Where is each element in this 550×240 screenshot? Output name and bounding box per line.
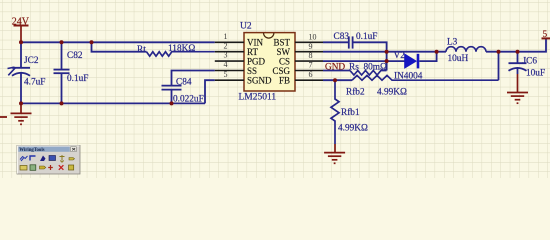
wire pin6 FB row	[323, 79, 352, 81]
svg-text:10uH: 10uH	[448, 54, 469, 64]
svg-text:JC6: JC6	[523, 57, 538, 67]
svg-text:L3: L3	[447, 37, 458, 47]
ground Rfb1	[324, 144, 345, 163]
svg-text:6: 6	[309, 70, 313, 79]
svg-text:4.99KΩ: 4.99KΩ	[377, 87, 407, 97]
wire pin10 to C83	[323, 41, 349, 43]
wire Rt branch	[92, 42, 147, 51]
notch	[264, 33, 274, 38]
svg-text:U2: U2	[240, 22, 252, 32]
wire ground rail	[21, 102, 205, 104]
icons row 2	[20, 166, 27, 171]
svg-text:0.1uF: 0.1uF	[67, 74, 88, 84]
pin numbers	[224, 32, 228, 79]
svg-text:CSG: CSG	[272, 66, 290, 76]
svg-text:10uF: 10uF	[526, 68, 545, 78]
wire pin8	[323, 60, 387, 62]
resistor Rt	[147, 52, 215, 57]
wire C83 to SW node	[353, 42, 387, 51]
capacitor JC6	[509, 52, 527, 74]
svg-text:JC2: JC2	[24, 56, 39, 66]
svg-text:V2: V2	[394, 51, 406, 61]
capacitor C83	[349, 36, 353, 48]
svg-text:4.7uF: 4.7uF	[24, 78, 45, 88]
svg-text:7: 7	[309, 61, 313, 70]
svg-text:SS: SS	[247, 66, 257, 76]
wire pin9 SW	[323, 51, 446, 53]
ground	[11, 103, 32, 124]
svg-text:9: 9	[309, 42, 313, 51]
icons row 1	[20, 156, 28, 160]
svg-text:5: 5	[224, 70, 228, 79]
resistor Rfb1	[331, 80, 339, 144]
svg-text:Rt: Rt	[137, 45, 146, 55]
svg-text:WiringTools: WiringTools	[19, 148, 44, 153]
svg-text:C84: C84	[176, 78, 192, 88]
wire fragment left edge lower	[0, 116, 7, 118]
svg-text:Rs: Rs	[349, 63, 359, 73]
svg-text:0.022uF: 0.022uF	[173, 95, 204, 105]
svg-text:24V: 24V	[12, 17, 30, 28]
ground JC6	[507, 74, 528, 103]
svg-text:4: 4	[224, 60, 228, 69]
wire pin4 to C84	[172, 71, 215, 86]
capacitor C84	[162, 86, 182, 104]
pin 1	[215, 41, 244, 43]
svg-text:2: 2	[224, 41, 228, 50]
resistor Rs	[350, 71, 387, 76]
resistor Rfb2	[352, 75, 499, 80]
pin 6	[295, 79, 323, 81]
pin 9	[295, 51, 323, 53]
pin 4	[215, 70, 244, 72]
svg-text:10: 10	[309, 32, 317, 41]
pin 7	[295, 70, 323, 72]
svg-text:80mΩ: 80mΩ	[364, 63, 388, 73]
pin 3	[215, 60, 244, 62]
svg-text:8: 8	[309, 51, 313, 60]
svg-text:4.99KΩ: 4.99KΩ	[338, 123, 368, 133]
junction dots	[19, 40, 520, 105]
op-amp U1 chip body	[244, 33, 295, 91]
svg-text:C82: C82	[67, 51, 83, 61]
svg-text:LM25011: LM25011	[239, 93, 277, 103]
pin 8	[295, 60, 323, 62]
inductor L3	[446, 47, 486, 52]
svg-text:0.1uF: 0.1uF	[356, 32, 377, 42]
pin 2	[215, 51, 244, 53]
svg-text:FB: FB	[279, 76, 290, 86]
pin names	[247, 38, 272, 86]
capacitor JC2	[12, 42, 30, 103]
svg-text:118KΩ: 118KΩ	[168, 44, 195, 54]
svg-text:C83: C83	[334, 32, 350, 42]
wire FB riser to output	[498, 52, 500, 80]
wire output row	[486, 38, 546, 51]
wire top rail 24V	[21, 41, 215, 43]
svg-text:1: 1	[224, 32, 228, 41]
wire fragment left edge	[8, 67, 16, 75]
diode V2	[387, 52, 437, 69]
svg-text:Rfb1: Rfb1	[341, 107, 360, 118]
power port 24V	[14, 26, 29, 43]
wire pin7 to Rs	[323, 70, 350, 72]
svg-text:Rfb2: Rfb2	[346, 86, 365, 97]
svg-text:5: 5	[543, 30, 548, 40]
pin 5	[215, 79, 244, 81]
WiringTools toolbar	[17, 145, 80, 174]
capacitor C82	[54, 42, 70, 103]
wire node A to B riser	[386, 52, 388, 71]
port 5	[542, 37, 550, 39]
pin 10	[295, 41, 323, 43]
wire pin5 to ground rail	[205, 80, 215, 103]
svg-text:SGND: SGND	[247, 76, 272, 86]
svg-text:3: 3	[224, 51, 228, 60]
